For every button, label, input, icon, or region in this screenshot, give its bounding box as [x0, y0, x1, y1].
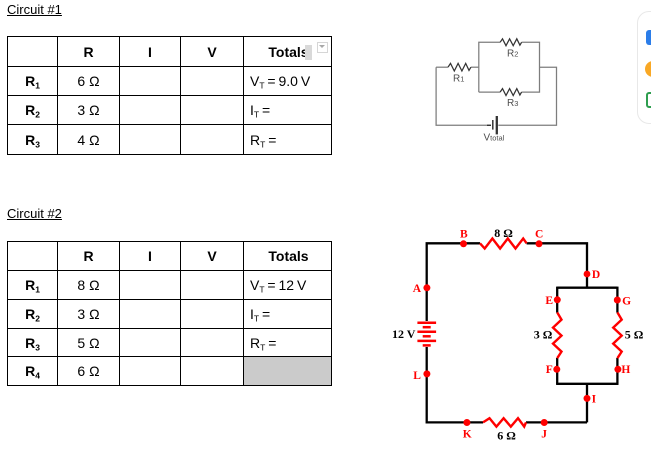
- svg-text:F: F: [546, 364, 553, 376]
- svg-text:G: G: [622, 296, 631, 308]
- svg-text:H: H: [621, 364, 630, 376]
- svg-text:6 Ω: 6 Ω: [497, 428, 516, 442]
- svg-text:J: J: [541, 428, 547, 440]
- svg-text:K: K: [463, 428, 472, 440]
- svg-text:L: L: [413, 370, 421, 382]
- svg-text:R1: R1: [453, 73, 464, 84]
- svg-text:8 Ω: 8 Ω: [494, 226, 513, 240]
- svg-text:12 V: 12 V: [392, 327, 416, 341]
- svg-text:C: C: [535, 228, 543, 240]
- svg-text:A: A: [413, 283, 422, 295]
- svg-text:I: I: [592, 393, 597, 405]
- svg-text:Vtotal: Vtotal: [484, 132, 505, 143]
- svg-text:B: B: [460, 229, 468, 241]
- svg-text:D: D: [592, 269, 600, 281]
- svg-text:5 Ω: 5 Ω: [625, 327, 644, 341]
- svg-text:E: E: [545, 295, 553, 307]
- svg-text:R2: R2: [507, 48, 518, 59]
- svg-text:R3: R3: [507, 98, 518, 109]
- svg-text:3 Ω: 3 Ω: [534, 327, 553, 341]
